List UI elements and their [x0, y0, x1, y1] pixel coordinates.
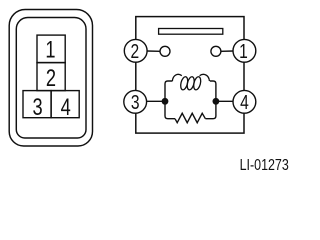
- svg-text:3: 3: [33, 94, 43, 121]
- terminal 1 number: [239, 40, 248, 62]
- connector outer shell: [9, 10, 92, 147]
- svg-text:LI-01273: LI-01273: [240, 157, 289, 175]
- contact point left: [160, 46, 170, 56]
- resistor R: [175, 113, 205, 122]
- wire terminal3 to node: [146, 100, 165, 102]
- terminal 3 number: [131, 91, 140, 113]
- pin cavity 3: [23, 91, 51, 118]
- pin number 3: [33, 94, 43, 121]
- terminal 4 number: [240, 91, 249, 113]
- svg-text:2: 2: [130, 40, 139, 62]
- contact bar: [159, 29, 223, 35]
- contact point right: [211, 46, 221, 56]
- wire node left up to coil: [165, 81, 173, 98]
- wire node to terminal4: [216, 100, 234, 102]
- wire resistor up to node right: [205, 105, 216, 119]
- terminal 3 circle: [124, 90, 147, 113]
- wire node left down to resistor: [165, 105, 175, 119]
- pin cavity 4: [51, 91, 79, 118]
- svg-text:3: 3: [131, 91, 140, 113]
- wire coil down to node right: [210, 81, 216, 98]
- relay case: [136, 17, 244, 134]
- svg-text:4: 4: [61, 94, 71, 121]
- pin number 1: [45, 36, 55, 63]
- terminal 2 circle: [124, 39, 147, 62]
- pin number 2: [46, 65, 56, 92]
- wire terminal2 to contact: [147, 50, 160, 52]
- pin number 4: [61, 94, 71, 121]
- svg-text:2: 2: [46, 65, 56, 92]
- svg-text:4: 4: [240, 91, 249, 113]
- terminal 2 number: [130, 40, 139, 62]
- junction node right: [213, 98, 220, 105]
- connector inner shell: [16, 18, 86, 139]
- pin cavity 1: [37, 35, 65, 63]
- junction node left: [162, 98, 169, 105]
- terminal 1 circle: [233, 39, 256, 62]
- inductor L: [172, 74, 209, 90]
- pin cavity 2: [37, 63, 65, 91]
- svg-text:1: 1: [239, 40, 248, 62]
- figure label LI-01273: [240, 157, 289, 175]
- svg-text:1: 1: [45, 36, 55, 63]
- terminal 4 circle: [233, 90, 256, 113]
- wire contact to terminal1: [221, 50, 234, 52]
